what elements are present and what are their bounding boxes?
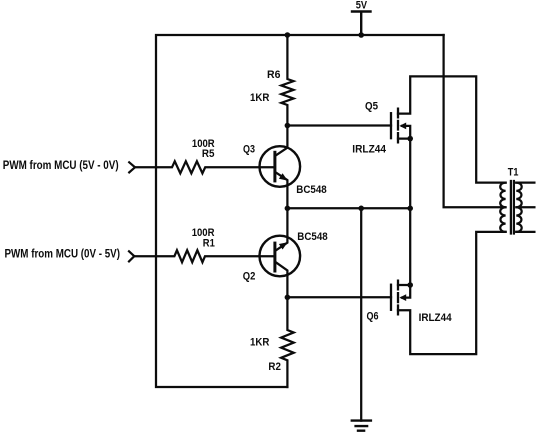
svg-text:PWM from MCU (0V - 5V): PWM from MCU (0V - 5V): [5, 247, 121, 261]
svg-text:R5: R5: [202, 148, 215, 160]
svg-text:R6: R6: [267, 69, 281, 81]
svg-text:5V: 5V: [356, 0, 367, 12]
svg-text:Q5: Q5: [365, 100, 378, 112]
svg-text:R2: R2: [268, 361, 281, 373]
svg-text:T1: T1: [508, 167, 519, 179]
svg-text:Q2: Q2: [243, 271, 256, 283]
svg-text:IRLZ44: IRLZ44: [419, 312, 452, 324]
svg-text:R1: R1: [203, 238, 215, 250]
svg-text:1KR: 1KR: [250, 92, 270, 104]
svg-text:Q6: Q6: [367, 310, 379, 322]
svg-text:BC548: BC548: [296, 184, 326, 196]
svg-text:IRLZ44: IRLZ44: [352, 144, 386, 156]
svg-text:BC548: BC548: [297, 231, 327, 243]
svg-text:1KR: 1KR: [250, 337, 270, 349]
svg-text:Q3: Q3: [243, 143, 255, 155]
svg-text:PWM from MCU (5V - 0V): PWM from MCU (5V - 0V): [3, 158, 119, 172]
